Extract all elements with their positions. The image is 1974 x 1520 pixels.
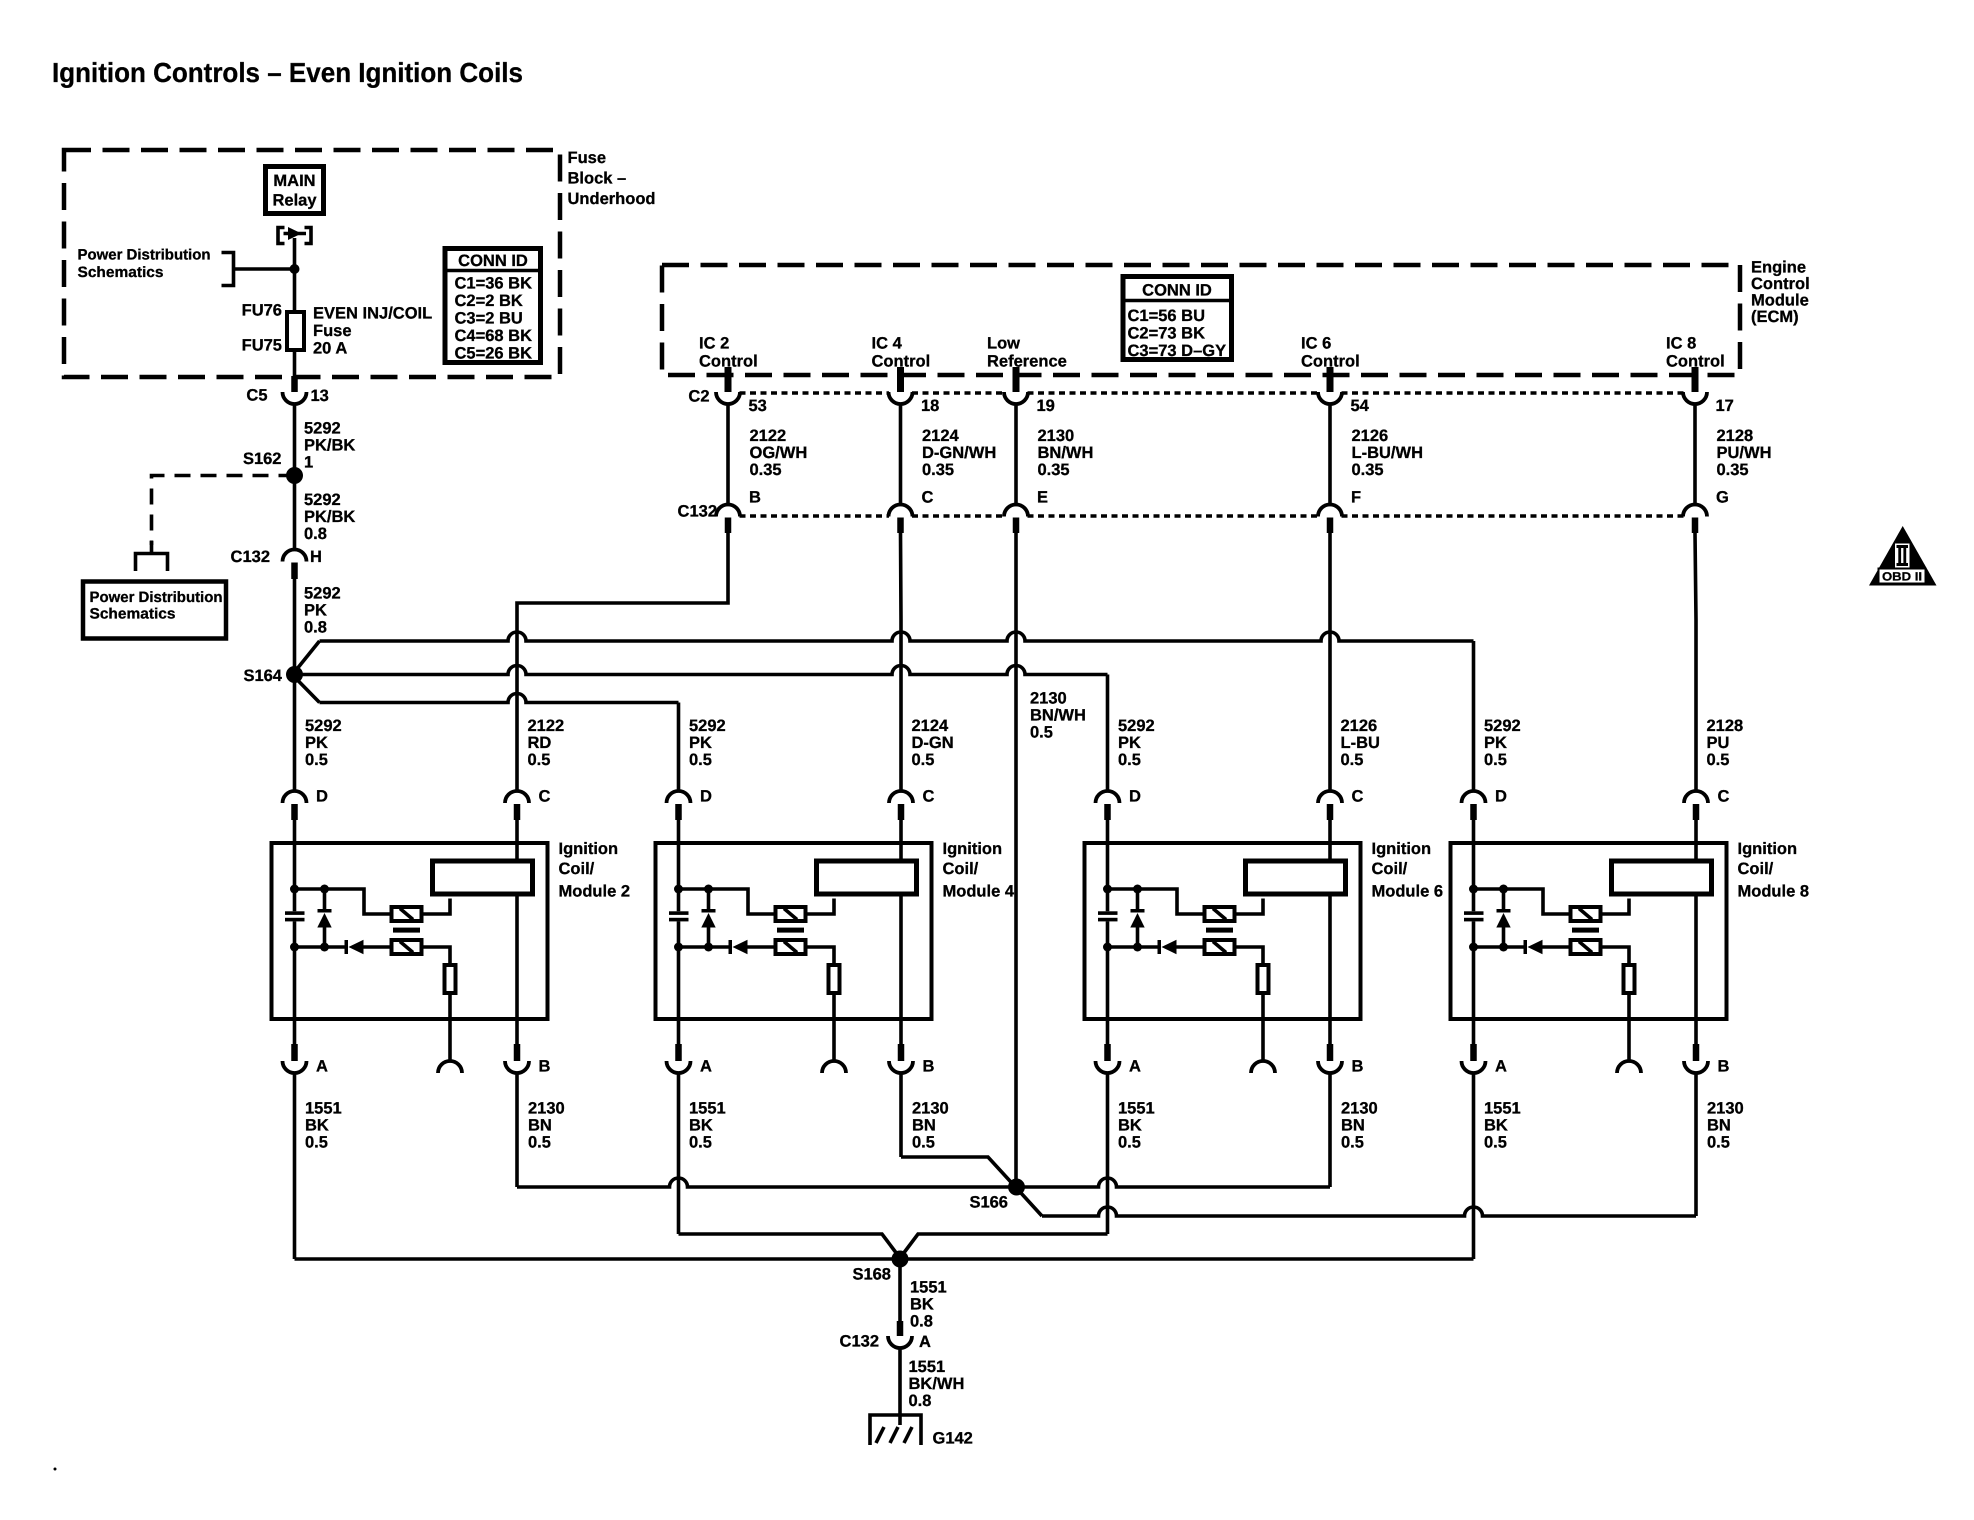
connector C132 pin A [897,1321,904,1336]
connector C132 pin C [889,505,913,517]
svg-text:0.5: 0.5 [1118,1134,1141,1152]
svg-text:Module: Module [1751,292,1809,310]
svg-text:18: 18 [921,397,939,415]
wire S164 to module 2 pin D (5292 PK 0.5) [293,675,297,792]
wire 5292 PK 0.8 [293,579,297,675]
svg-text:Block –: Block – [568,170,627,188]
wire 0.35 to C132 pin F [1328,404,1332,506]
svg-text:C2: C2 [688,388,709,406]
svg-text:A: A [919,1333,931,1351]
svg-text:BN: BN [1707,1117,1731,1135]
wire 2128 PU 0.5 to module 8 pin C [1695,533,1696,792]
svg-text:Fuse: Fuse [568,149,607,167]
svg-text:0.5: 0.5 [1341,1134,1364,1152]
splice S162 [286,467,303,484]
svg-text:Underhood: Underhood [568,190,656,208]
wire bracket to relay feed [234,267,295,271]
svg-text:D-GN: D-GN [912,734,954,752]
svg-text:2126: 2126 [1352,427,1389,445]
connector line C2 (dotted) [740,391,890,395]
svg-text:S166: S166 [969,1194,1008,1212]
svg-text:C1=56 BU: C1=56 BU [1128,307,1206,325]
svg-text:0.5: 0.5 [912,1134,935,1152]
svg-text:BK: BK [305,1117,329,1135]
CONN ID table (fuse block) [445,249,541,363]
svg-text:13: 13 [311,387,329,405]
svg-text:Low: Low [987,335,1020,353]
svg-text:Reference: Reference [987,353,1067,371]
svg-text:2130: 2130 [1341,1100,1378,1118]
svg-text:Coil/: Coil/ [1372,860,1408,878]
svg-text:1: 1 [304,454,313,472]
svg-text:2130: 2130 [1707,1100,1744,1118]
connector C132 pin H [283,550,307,562]
fuse FU76/FU75 EVEN INJ/COIL 20 A [287,312,304,350]
CONN ID table (ECM) [1123,277,1232,360]
svg-text:0.8: 0.8 [909,1392,932,1410]
svg-text:PU/WH: PU/WH [1717,444,1772,462]
svg-text:Schematics: Schematics [78,264,164,281]
svg-text:2128: 2128 [1717,427,1754,445]
svg-text:D-GN/WH: D-GN/WH [922,444,996,462]
wire 5292 PK/BK 0.8 [293,476,297,551]
svg-text:Power Distribution: Power Distribution [78,247,211,264]
svg-text:OBD II: OBD II [1882,570,1922,584]
svg-text:C2=73 BK: C2=73 BK [1128,325,1206,343]
wire 2122 RD 0.5 (jog to module 2 pin C) [517,533,728,792]
svg-text:Coil/: Coil/ [559,860,595,878]
splice S166 [1008,1179,1025,1196]
svg-text:0.5: 0.5 [1484,751,1507,769]
wire 0.35 to C132 pin C [899,404,903,506]
svg-text:PK: PK [305,734,328,752]
svg-text:0.5: 0.5 [689,751,712,769]
svg-text:BN: BN [1341,1117,1365,1135]
connector C2 pin 17 [1683,392,1707,404]
svg-text:C4=68 BK: C4=68 BK [455,327,533,345]
wire module 4 pin B down (2130 BN 0.5) [899,1073,903,1158]
svg-text:5292: 5292 [305,717,342,735]
svg-text:5292: 5292 [689,717,726,735]
svg-text:53: 53 [749,397,767,415]
relay contact symbol [278,228,285,244]
svg-text:C132: C132 [678,503,717,521]
wire low reference bus (B pins to S166) [517,1178,1330,1187]
wire S164 branch to module 6 pin D [295,666,1108,675]
svg-text:IC 4: IC 4 [872,335,903,353]
svg-text:C1=36 BK: C1=36 BK [455,275,533,293]
svg-text:C3=2 BU: C3=2 BU [455,310,523,328]
svg-text:PK/BK: PK/BK [304,437,355,455]
wire contact to fuse [293,238,297,312]
wire module 4/6 pin A to S168 [679,1234,901,1258]
svg-text:5292: 5292 [304,585,341,603]
svg-text:0.5: 0.5 [305,751,328,769]
svg-text:PK: PK [689,734,712,752]
svg-text:2130: 2130 [1030,690,1067,708]
ignition coil/module 4 [656,788,935,1076]
wire 1551 BK/WH 0.8 to ground [898,1348,902,1426]
dashed reference wire from S162 [152,476,295,546]
svg-text:Relay: Relay [272,192,317,210]
svg-text:E: E [1037,489,1048,507]
svg-text:BN: BN [528,1117,552,1135]
svg-text:L-BU: L-BU [1341,734,1380,752]
svg-text:Power Distribution: Power Distribution [90,589,223,606]
connector C5 pin 13 [291,376,298,392]
svg-text:PK: PK [1118,734,1141,752]
fuse block - underhood (dashed enclosure) [64,150,560,377]
svg-text:S164: S164 [243,667,282,685]
connector line C132 (dotted) [740,514,890,518]
wire module 4/8 pin B diagonal through S166 [901,1157,1042,1216]
svg-text:0.35: 0.35 [922,461,954,479]
wire S164 branch to module 8 pin D [295,641,320,672]
svg-text:L-BU/WH: L-BU/WH [1352,444,1423,462]
OBD II symbol [1869,526,1937,586]
svg-text:C132: C132 [231,548,270,566]
wire 0.35 to C132 pin E [1014,404,1018,506]
svg-text:FU75: FU75 [242,337,282,355]
svg-text:54: 54 [1351,397,1370,415]
svg-text:PK/BK: PK/BK [304,508,355,526]
connector C2 pin 54 [1318,392,1342,404]
svg-text:B: B [749,489,761,507]
svg-text:19: 19 [1037,397,1055,415]
svg-text:S168: S168 [852,1266,891,1284]
ignition coil/module 6 [1085,788,1364,1076]
page mark [54,1468,57,1471]
svg-text:Module 6: Module 6 [1372,883,1444,901]
bracket to power distribution schematics box [136,554,168,572]
svg-text:0.8: 0.8 [304,619,327,637]
svg-text:PK: PK [304,602,327,620]
svg-text:BN: BN [912,1117,936,1135]
svg-text:Coil/: Coil/ [943,860,979,878]
splice S168 [892,1251,909,1268]
svg-text:Fuse: Fuse [313,322,352,340]
svg-text:0.5: 0.5 [1030,724,1053,742]
svg-text:17: 17 [1716,397,1734,415]
svg-text:0.5: 0.5 [689,1134,712,1152]
svg-text:CONN ID: CONN ID [1142,282,1212,300]
wire ground bus (A pins) [295,1257,1474,1261]
bracket to power distribution [222,253,234,286]
svg-text:G142: G142 [933,1430,973,1448]
splice S164 [286,666,303,683]
svg-text:Schematics: Schematics [90,606,176,623]
connector C132 pin E [1004,505,1028,517]
svg-text:2122: 2122 [528,717,565,735]
svg-text:Module 2: Module 2 [559,883,631,901]
svg-text:OG/WH: OG/WH [750,444,808,462]
ground G142 [870,1415,921,1445]
svg-text:CONN ID: CONN ID [458,252,528,270]
svg-text:Ignition Controls – Even Ignit: Ignition Controls – Even Ignition Coils [52,57,523,88]
svg-text:BK/WH: BK/WH [909,1375,965,1393]
svg-text:20 A: 20 A [313,340,347,358]
svg-text:BK: BK [689,1117,713,1135]
wire 5292 PK/BK 1 [293,404,297,476]
svg-text:1551: 1551 [1118,1100,1155,1118]
svg-text:0.5: 0.5 [1484,1134,1507,1152]
svg-text:Engine: Engine [1751,259,1806,277]
svg-text:0.35: 0.35 [750,461,782,479]
wire 2130 BN/WH 0.5 to splice S166 [1014,533,1018,1187]
connector C2 pin 18 [889,392,913,404]
wire module 8 pin B down (2130 BN 0.5) [1694,1073,1698,1217]
svg-text:Ignition: Ignition [559,840,619,858]
svg-text:1551: 1551 [909,1358,946,1376]
svg-text:1551: 1551 [910,1279,947,1297]
svg-text:2124: 2124 [912,717,950,735]
svg-text:Module 8: Module 8 [1738,883,1810,901]
svg-text:2122: 2122 [750,427,787,445]
wire fuse to C5 [293,350,297,376]
connector C132 pin G [1683,505,1707,517]
svg-text:RD: RD [528,734,552,752]
svg-text:0.35: 0.35 [1038,461,1070,479]
svg-text:BK: BK [1118,1117,1142,1135]
svg-text:FU76: FU76 [242,302,282,320]
svg-text:MAIN: MAIN [273,172,315,190]
svg-text:F: F [1351,489,1361,507]
svg-text:0.5: 0.5 [912,751,935,769]
svg-text:C5=26 BK: C5=26 BK [455,345,533,363]
svg-text:Ignition: Ignition [943,840,1003,858]
svg-text:C: C [922,489,934,507]
connector C2 pin 53 [716,392,740,404]
svg-text:0.5: 0.5 [1118,751,1141,769]
svg-text:2126: 2126 [1341,717,1378,735]
wire 2124 D-GN 0.5 to module 4 pin C [899,533,903,792]
svg-text:0.5: 0.5 [1707,751,1730,769]
wire module 2 pin A down (1551 BK 0.5) [293,1073,297,1260]
svg-text:BN/WH: BN/WH [1038,444,1094,462]
svg-text:IC 8: IC 8 [1666,335,1696,353]
power distribution schematics box [83,582,226,639]
svg-text:0.8: 0.8 [910,1313,933,1331]
connector C132 pin F [1318,505,1342,517]
svg-text:1551: 1551 [305,1100,342,1118]
svg-text:2128: 2128 [1707,717,1744,735]
wire module 2 pin B down (2130 BN 0.5) [515,1073,519,1188]
svg-text:C132: C132 [840,1333,879,1351]
wire module 6 pin A down (1551 BK 0.5) [1106,1073,1110,1235]
svg-text:H: H [310,548,322,566]
svg-text:Control: Control [1751,275,1810,293]
svg-text:PK: PK [1484,734,1507,752]
svg-text:IC 2: IC 2 [699,335,729,353]
svg-text:IC 6: IC 6 [1301,335,1331,353]
svg-text:0.5: 0.5 [528,751,551,769]
svg-text:(ECM): (ECM) [1751,308,1799,326]
wire module 6 pin B down (2130 BN 0.5) [1328,1073,1332,1188]
svg-text:0.5: 0.5 [528,1134,551,1152]
svg-text:C5: C5 [246,387,267,405]
MAIN relay box [266,167,324,214]
svg-text:Coil/: Coil/ [1738,860,1774,878]
svg-text:C2=2 BK: C2=2 BK [455,292,523,310]
wire S164 branch to module 4 pin D [295,677,320,703]
svg-text:1551: 1551 [689,1100,726,1118]
connector C2 pin 19 [1004,392,1028,404]
svg-text:0.8: 0.8 [304,525,327,543]
wire 1551 BK 0.8 [898,1259,902,1321]
svg-text:0.5: 0.5 [1341,751,1364,769]
engine control module (dashed enclosure) [662,265,1740,375]
svg-text:G: G [1716,489,1729,507]
svg-text:2130: 2130 [912,1100,949,1118]
ignition coil/module 8 [1451,788,1730,1076]
svg-text:1551: 1551 [1484,1100,1521,1118]
svg-text:PU: PU [1707,734,1730,752]
wire module 4 pin A down (1551 BK 0.5) [677,1073,681,1235]
svg-text:5292: 5292 [304,491,341,509]
svg-text:5292: 5292 [304,420,341,438]
wire module 8 pin A down (1551 BK 0.5) [1472,1073,1476,1260]
svg-text:0.35: 0.35 [1352,461,1384,479]
svg-text:0.5: 0.5 [305,1134,328,1152]
wire 2126 L-BU 0.5 to module 6 pin C [1328,533,1332,792]
svg-text:2130: 2130 [528,1100,565,1118]
svg-text:5292: 5292 [1484,717,1521,735]
svg-text:Ignition: Ignition [1738,840,1798,858]
svg-text:2124: 2124 [922,427,960,445]
wire 0.35 to C132 pin B [726,404,730,506]
svg-text:Module 4: Module 4 [943,883,1015,901]
svg-text:S162: S162 [243,450,282,468]
svg-text:BK: BK [1484,1117,1508,1135]
svg-text:0.35: 0.35 [1717,461,1749,479]
ignition coil/module 2 [272,788,551,1076]
svg-text:C3=73 D–GY: C3=73 D–GY [1128,342,1227,360]
svg-text:BN/WH: BN/WH [1030,707,1086,725]
svg-text:0.5: 0.5 [1707,1134,1730,1152]
svg-text:2130: 2130 [1038,427,1075,445]
svg-text:BK: BK [910,1296,934,1314]
svg-text:Ignition: Ignition [1372,840,1432,858]
wire 0.35 to C132 pin G [1693,404,1697,506]
svg-text:EVEN INJ/COIL: EVEN INJ/COIL [313,305,432,323]
svg-text:5292: 5292 [1118,717,1155,735]
node: relay feed junction [290,264,300,274]
connector C132 pin B [716,505,740,517]
